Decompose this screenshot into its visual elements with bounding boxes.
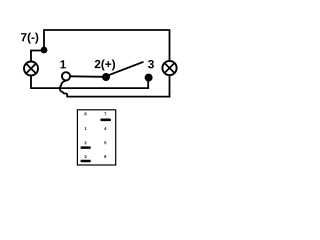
pin number 7 xyxy=(104,112,106,115)
label 7(-) xyxy=(21,33,38,44)
node 7(-) junction dot xyxy=(41,47,48,54)
pin number 5 xyxy=(104,141,106,144)
lamp L2 right indicator xyxy=(162,61,176,75)
connector body outline box xyxy=(77,110,115,165)
wire terminal 1 down with hop over crossing to right lamp bottom xyxy=(60,76,170,97)
wire node 7 to left lamp top xyxy=(31,51,44,62)
pin number 4 xyxy=(104,127,106,130)
pin number 2 xyxy=(85,141,87,144)
switch lever from terminal 2 toward terminal 3 xyxy=(109,62,144,75)
wire left lamp bottom to terminal 3 stub xyxy=(31,76,148,89)
terminal bar under pin 2 xyxy=(81,146,91,149)
pin number 8 xyxy=(84,112,86,115)
terminal 1 open contact circle xyxy=(62,72,70,80)
terminal bar under pin 3 xyxy=(81,160,91,163)
label 2(+) xyxy=(95,60,115,71)
terminal bar under pin 7 xyxy=(100,119,111,122)
pin number 6 xyxy=(104,155,106,158)
pin number 1 xyxy=(85,127,87,130)
label 3 xyxy=(148,60,154,68)
wire top rail from node 7 to right lamp xyxy=(44,30,170,60)
terminal 3 contact dot xyxy=(145,74,153,82)
label 1 xyxy=(60,60,65,68)
terminal 2 contact dot xyxy=(102,73,110,81)
lamp L1 left indicator xyxy=(24,62,38,76)
pin number 3 xyxy=(84,155,86,158)
wire terminal 1 to terminal 2 xyxy=(70,75,103,78)
